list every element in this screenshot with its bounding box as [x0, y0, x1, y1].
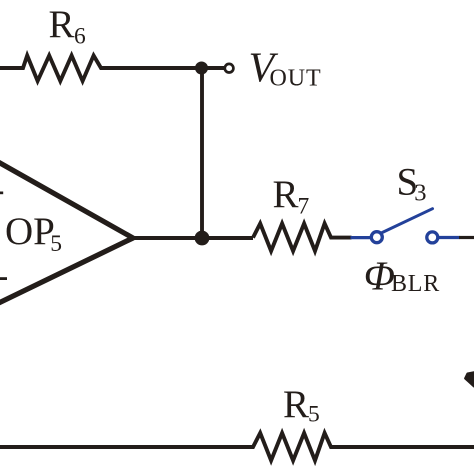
node label VOUT — [249, 45, 322, 91]
svg-text:5: 5 — [308, 402, 320, 428]
svg-text:R: R — [273, 173, 299, 216]
svg-text:5: 5 — [50, 231, 62, 257]
op-amp OP5 — [0, 155, 133, 309]
node: junction on output wire — [195, 231, 210, 246]
wire: op-amp output to R7 — [131, 236, 253, 240]
resistor R7 — [253, 173, 352, 251]
svg-text:R: R — [283, 383, 309, 426]
wire: vertical feedback wire — [200, 68, 204, 238]
node: junction at R6 / Vout — [195, 62, 208, 75]
svg-text:BLR: BLR — [391, 271, 440, 297]
label S3 — [397, 160, 427, 206]
wire: black stub right of switch — [459, 236, 474, 239]
resistor R6 — [0, 3, 224, 81]
svg-text:3: 3 — [414, 180, 426, 207]
svg-text:R: R — [49, 3, 75, 46]
svg-text:OUT: OUT — [270, 66, 322, 92]
resistor R5 — [0, 383, 474, 461]
svg-text:7: 7 — [298, 194, 310, 220]
switch S3 (blue) — [351, 209, 460, 243]
arrowhead (clipped, bottom right) — [465, 372, 474, 386]
svg-text:OP: OP — [5, 210, 55, 253]
svg-text:6: 6 — [74, 24, 86, 50]
node: output terminal circle — [225, 64, 234, 73]
label PHI BLR — [364, 252, 440, 298]
